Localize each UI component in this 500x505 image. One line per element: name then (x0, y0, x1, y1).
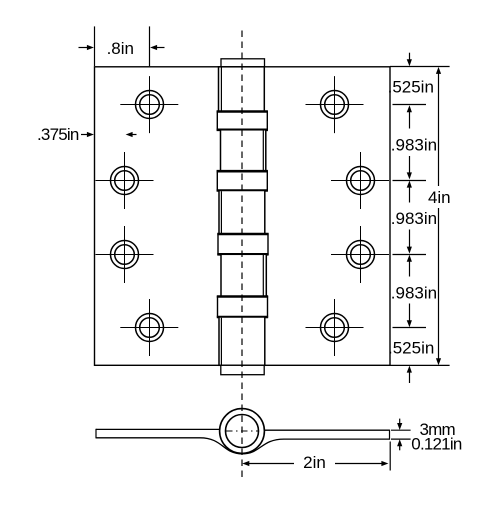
dim .375in inner-column arrow (126, 132, 137, 137)
side view: barrel outer circle (220, 409, 265, 454)
thickness extension top (391, 429, 411, 431)
svg-text:.983in: .983in (391, 135, 437, 154)
arrow up to row2 (below) (407, 181, 412, 203)
row line R2 (393, 180, 427, 182)
barrel top cap (221, 59, 265, 67)
extension line first hole column up (149, 26, 151, 66)
svg-text:2in: 2in (303, 453, 326, 472)
svg-text:4in: 4in (428, 188, 451, 207)
side view: horizontal centerline dash (226, 430, 259, 432)
knuckle K3 (219, 191, 265, 235)
knuckle K1 (219, 67, 265, 112)
arrow up to leaf bottom (397, 439, 402, 450)
row line R4 (393, 327, 427, 329)
bearing band B1 (217, 112, 267, 130)
dim .8in left arrow (79, 45, 94, 50)
hole H6 (right, second row) (331, 152, 389, 209)
row line R3 (393, 254, 427, 256)
dim 2in right segment (335, 461, 388, 466)
extension line bottom right (390, 364, 450, 366)
arrow up to row3 (below) (407, 255, 412, 277)
dim 4in line upper (436, 67, 441, 186)
side view: barrel inner circle (226, 415, 259, 448)
knuckle edge step lines (220, 68, 222, 111)
side view: left leaf top line (96, 428, 224, 430)
arrow down to row3 (407, 230, 412, 254)
hole H5 (right top) (306, 76, 364, 133)
dim .375in arrow to plate edge (81, 132, 94, 137)
hole H2 (left, second row) (96, 152, 154, 209)
barrel bottom cap (221, 365, 264, 374)
arrow down to leaf top (397, 419, 402, 430)
svg-text:.375in: .375in (37, 125, 79, 144)
2in extension right (389, 442, 391, 471)
arrow down to plate top (407, 53, 412, 67)
hole H1 (left top) (120, 76, 178, 133)
bearing band B3 (218, 234, 268, 254)
row line R1 (393, 104, 427, 106)
arrow down to row4 (407, 304, 412, 328)
knuckle K5 (219, 317, 265, 365)
knuckle K2 (221, 130, 266, 171)
dim 2in left segment (242, 461, 294, 466)
thickness extension bottom (391, 438, 411, 440)
side view: right leaf end cap (389, 430, 391, 440)
svg-text:0.121in: 0.121in (411, 434, 462, 453)
hinge plate outline (95, 67, 391, 366)
hole H8 (right bottom) (306, 299, 364, 356)
bearing band B4 (218, 297, 268, 318)
svg-text:.525in: .525in (388, 338, 434, 357)
arrow up to row1 (407, 105, 412, 128)
hole H4 (left bottom) (120, 299, 178, 356)
arrow down to row2 (407, 156, 412, 179)
svg-text:.983in: .983in (391, 209, 437, 228)
dim .8in right arrow (150, 45, 164, 50)
bearing band B2 (217, 171, 267, 190)
svg-text:.525in: .525in (388, 78, 434, 97)
centerline (vertical dash through barrel) (241, 31, 243, 478)
side view: right leaf top line (260, 429, 390, 431)
svg-text:.8in: .8in (107, 39, 134, 58)
dim 4in line lower (436, 208, 441, 365)
knuckle K4 (221, 254, 266, 296)
extension line left edge up (94, 26, 96, 66)
svg-text:.983in: .983in (391, 284, 437, 303)
hole H7 (right, third row) (331, 226, 389, 283)
extension line top right (390, 66, 450, 68)
side view: left leaf end cap (95, 429, 97, 439)
arrow up to plate bottom (below) (407, 366, 412, 383)
hole H3 (left, third row) (96, 226, 154, 283)
side view: leaf bottom wrap curve (96, 438, 390, 454)
